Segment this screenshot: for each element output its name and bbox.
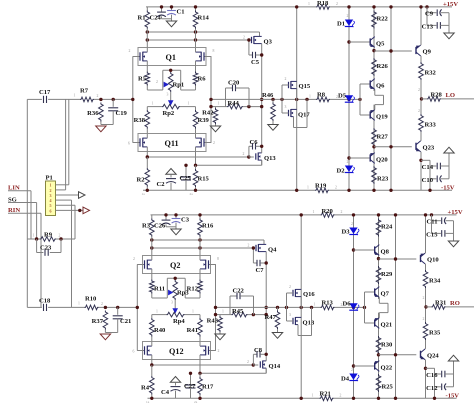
svg-text:Q20: Q20 bbox=[376, 157, 388, 164]
svg-text:Rp4: Rp4 bbox=[173, 318, 185, 325]
svg-text:1: 1 bbox=[308, 2, 310, 6]
svg-text:R28: R28 bbox=[431, 92, 443, 99]
svg-text:R10: R10 bbox=[85, 296, 97, 303]
svg-text:2: 2 bbox=[285, 77, 287, 81]
svg-text:C10: C10 bbox=[422, 177, 434, 184]
svg-text:2: 2 bbox=[129, 49, 131, 53]
svg-text:1: 1 bbox=[74, 94, 76, 98]
svg-text:Q8: Q8 bbox=[381, 249, 390, 256]
svg-text:R36: R36 bbox=[87, 110, 99, 117]
svg-text:6: 6 bbox=[133, 350, 135, 354]
svg-text:1: 1 bbox=[33, 234, 35, 238]
svg-text:R47: R47 bbox=[265, 314, 277, 321]
svg-text:R31: R31 bbox=[435, 300, 446, 307]
svg-text:2: 2 bbox=[423, 296, 425, 300]
svg-text:1: 1 bbox=[156, 310, 158, 314]
svg-text:R46: R46 bbox=[262, 92, 274, 99]
svg-text:Q15: Q15 bbox=[299, 83, 311, 90]
svg-text:R9: R9 bbox=[44, 231, 53, 238]
svg-text:R16: R16 bbox=[202, 223, 214, 230]
svg-text:D2: D2 bbox=[336, 168, 345, 175]
svg-text:C6: C6 bbox=[249, 139, 258, 146]
svg-text:R13: R13 bbox=[322, 300, 334, 307]
svg-text:8: 8 bbox=[217, 257, 219, 261]
svg-text:D5: D5 bbox=[338, 93, 347, 100]
svg-text:Q7: Q7 bbox=[381, 291, 390, 298]
svg-text:C11: C11 bbox=[427, 218, 438, 225]
svg-text:C3: C3 bbox=[181, 217, 190, 224]
svg-text:C13: C13 bbox=[422, 23, 434, 30]
svg-text:1: 1 bbox=[78, 302, 80, 306]
svg-text:C25: C25 bbox=[180, 175, 192, 182]
svg-text:R23: R23 bbox=[377, 176, 389, 183]
svg-text:R29: R29 bbox=[381, 271, 393, 278]
svg-text:C12: C12 bbox=[426, 385, 438, 392]
svg-text:-15V: -15V bbox=[441, 184, 455, 191]
svg-text:C20: C20 bbox=[228, 80, 240, 87]
svg-text:C8: C8 bbox=[254, 347, 263, 354]
svg-text:C15: C15 bbox=[426, 231, 438, 238]
svg-text:+15V: +15V bbox=[448, 209, 463, 216]
svg-text:C4: C4 bbox=[161, 389, 170, 396]
svg-text:C22: C22 bbox=[233, 288, 245, 295]
svg-text:C16: C16 bbox=[426, 372, 438, 379]
svg-text:3: 3 bbox=[285, 105, 287, 109]
svg-text:8: 8 bbox=[213, 49, 215, 53]
svg-text:D4: D4 bbox=[341, 376, 350, 383]
svg-text:3: 3 bbox=[289, 313, 291, 317]
svg-text:R15: R15 bbox=[198, 176, 210, 183]
svg-text:R39: R39 bbox=[198, 117, 210, 124]
svg-text:2: 2 bbox=[97, 94, 99, 98]
svg-text:C17: C17 bbox=[39, 89, 51, 96]
svg-text:Rp1: Rp1 bbox=[173, 82, 185, 89]
svg-text:R30: R30 bbox=[381, 342, 393, 349]
svg-text:C7: C7 bbox=[256, 267, 265, 274]
svg-text:R22: R22 bbox=[377, 16, 389, 23]
svg-text:Q14: Q14 bbox=[269, 363, 281, 370]
svg-text:R27: R27 bbox=[377, 134, 389, 141]
svg-text:R6: R6 bbox=[198, 76, 207, 83]
svg-text:R37: R37 bbox=[92, 318, 104, 325]
svg-text:R38: R38 bbox=[134, 117, 146, 124]
svg-text:2: 2 bbox=[243, 36, 245, 40]
svg-text:Q24: Q24 bbox=[427, 353, 439, 360]
svg-text:1: 1 bbox=[312, 393, 314, 397]
svg-text:Q18: Q18 bbox=[303, 320, 315, 327]
svg-text:C5: C5 bbox=[251, 59, 260, 66]
svg-text:R21: R21 bbox=[320, 390, 331, 397]
svg-text:3: 3 bbox=[171, 301, 173, 305]
svg-text:R32: R32 bbox=[425, 70, 437, 77]
svg-text:2: 2 bbox=[351, 368, 353, 372]
svg-text:R1: R1 bbox=[137, 15, 145, 22]
svg-text:2: 2 bbox=[351, 222, 353, 226]
svg-text:R3: R3 bbox=[142, 223, 151, 230]
svg-text:2: 2 bbox=[336, 2, 338, 6]
svg-text:R2: R2 bbox=[136, 177, 145, 184]
svg-text:D3: D3 bbox=[341, 229, 350, 236]
svg-text:C9: C9 bbox=[425, 10, 434, 17]
svg-text:R18: R18 bbox=[317, 0, 329, 7]
svg-text:Q22: Q22 bbox=[381, 365, 393, 372]
svg-text:C21: C21 bbox=[120, 318, 131, 325]
svg-text:Q4: Q4 bbox=[268, 247, 277, 254]
svg-text:R34: R34 bbox=[429, 278, 441, 285]
svg-text:2: 2 bbox=[161, 288, 163, 292]
svg-text:Q17: Q17 bbox=[298, 112, 310, 119]
svg-text:1a: 1a bbox=[142, 192, 146, 196]
svg-text:1: 1 bbox=[307, 185, 309, 189]
svg-text:Q3: Q3 bbox=[264, 39, 273, 46]
svg-text:1: 1 bbox=[314, 302, 316, 306]
svg-text:Q13: Q13 bbox=[264, 155, 276, 162]
svg-text:2: 2 bbox=[213, 141, 215, 145]
svg-text:2: 2 bbox=[156, 80, 158, 84]
svg-text:1: 1 bbox=[313, 210, 315, 214]
svg-text:R45: R45 bbox=[232, 308, 244, 315]
svg-text:R24: R24 bbox=[381, 224, 393, 231]
svg-text:2: 2 bbox=[335, 186, 337, 190]
svg-text:6: 6 bbox=[128, 142, 130, 146]
svg-text:R44: R44 bbox=[228, 100, 240, 107]
svg-text:1: 1 bbox=[309, 94, 311, 98]
svg-text:1: 1 bbox=[192, 310, 194, 314]
svg-text:P1: P1 bbox=[46, 175, 53, 182]
svg-text:+15V: +15V bbox=[443, 1, 458, 8]
svg-text:6: 6 bbox=[50, 208, 52, 213]
svg-text:Q19: Q19 bbox=[376, 114, 388, 121]
svg-text:R4: R4 bbox=[141, 385, 150, 392]
svg-text:D6: D6 bbox=[342, 301, 351, 308]
svg-text:Q2: Q2 bbox=[170, 261, 180, 270]
svg-text:R43: R43 bbox=[207, 318, 219, 325]
svg-text:Q21: Q21 bbox=[381, 322, 393, 329]
svg-text:1: 1 bbox=[222, 310, 224, 314]
svg-text:2: 2 bbox=[418, 88, 420, 92]
svg-text:3: 3 bbox=[167, 93, 169, 97]
svg-text:2: 2 bbox=[248, 244, 250, 248]
svg-text:R25: R25 bbox=[382, 384, 394, 391]
svg-text:2: 2 bbox=[289, 285, 291, 289]
svg-text:R40: R40 bbox=[154, 327, 166, 334]
svg-text:Rp2: Rp2 bbox=[163, 110, 175, 117]
svg-text:C2: C2 bbox=[157, 181, 166, 188]
svg-text:Q23: Q23 bbox=[423, 145, 435, 152]
svg-text:2: 2 bbox=[341, 210, 343, 214]
svg-text:R26: R26 bbox=[377, 63, 389, 70]
svg-text:2: 2 bbox=[243, 152, 245, 156]
svg-text:R20: R20 bbox=[322, 208, 334, 215]
svg-text:Q5: Q5 bbox=[376, 41, 385, 48]
svg-text:1: 1 bbox=[152, 102, 154, 106]
svg-text:Q12: Q12 bbox=[169, 347, 184, 356]
svg-text:Q11: Q11 bbox=[165, 139, 179, 148]
svg-text:2: 2 bbox=[347, 14, 349, 18]
svg-text:R5: R5 bbox=[138, 76, 147, 83]
svg-text:2: 2 bbox=[247, 360, 249, 364]
svg-text:C23: C23 bbox=[40, 245, 52, 252]
svg-text:Q9: Q9 bbox=[423, 49, 432, 56]
svg-text:2a: 2a bbox=[190, 192, 194, 196]
svg-text:R7: R7 bbox=[80, 88, 89, 95]
svg-text:R8: R8 bbox=[317, 92, 326, 99]
svg-text:Q1: Q1 bbox=[166, 53, 176, 62]
svg-text:2: 2 bbox=[133, 257, 135, 261]
svg-text:R33: R33 bbox=[425, 122, 437, 129]
svg-text:C1: C1 bbox=[177, 9, 185, 16]
svg-text:1: 1 bbox=[218, 102, 220, 106]
svg-text:2: 2 bbox=[59, 234, 61, 238]
svg-text:C27: C27 bbox=[184, 383, 196, 390]
svg-text:C19: C19 bbox=[116, 110, 128, 117]
svg-text:C14: C14 bbox=[422, 164, 434, 171]
svg-text:C26: C26 bbox=[154, 223, 166, 230]
svg-text:Q16: Q16 bbox=[303, 291, 315, 298]
svg-text:2: 2 bbox=[418, 109, 420, 113]
svg-text:D1: D1 bbox=[337, 21, 345, 28]
svg-text:2: 2 bbox=[218, 349, 220, 353]
svg-text:Rp3: Rp3 bbox=[177, 290, 189, 297]
svg-text:R19: R19 bbox=[315, 182, 327, 189]
svg-text:R42: R42 bbox=[202, 110, 214, 117]
svg-text:LO: LO bbox=[446, 92, 456, 99]
svg-text:-15V: -15V bbox=[446, 392, 460, 399]
svg-text:R11: R11 bbox=[154, 286, 165, 293]
svg-text:1: 1 bbox=[188, 102, 190, 106]
svg-text:2: 2 bbox=[340, 394, 342, 398]
svg-text:2: 2 bbox=[101, 302, 103, 306]
svg-text:R14: R14 bbox=[198, 15, 210, 22]
svg-text:2: 2 bbox=[423, 317, 425, 321]
svg-text:R41: R41 bbox=[187, 327, 198, 334]
svg-text:Q6: Q6 bbox=[376, 83, 385, 90]
svg-text:R17: R17 bbox=[202, 384, 214, 391]
svg-text:Q10: Q10 bbox=[427, 257, 439, 264]
svg-text:C24: C24 bbox=[150, 15, 162, 22]
svg-text:RO: RO bbox=[450, 300, 460, 307]
svg-text:2: 2 bbox=[347, 160, 349, 164]
svg-text:R35: R35 bbox=[429, 330, 441, 337]
